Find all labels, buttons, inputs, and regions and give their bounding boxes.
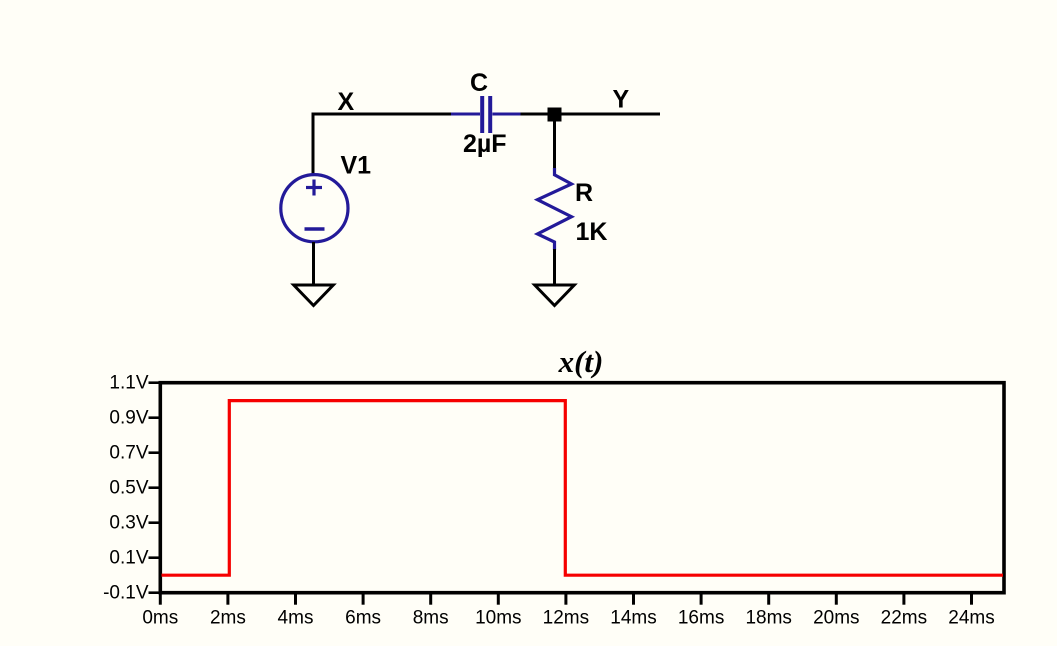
wire: X node horizontal (312, 113, 453, 116)
trace: x(t) square wave (162, 401, 1004, 576)
svg-text:R: R (575, 179, 593, 207)
svg-text:0.3V: 0.3V (109, 513, 148, 534)
y-axis labels (103, 373, 149, 604)
plot frame (160, 383, 1004, 593)
svg-text:1.1V: 1.1V (109, 373, 148, 394)
wire: node Y down to resistor (553, 120, 556, 169)
svg-text:X: X (338, 88, 355, 116)
y-axis ticks (149, 383, 160, 593)
ground (under R) (535, 285, 575, 306)
wire: V1 bottom to ground (312, 242, 315, 286)
voltage source V1 (281, 175, 348, 242)
wire: resistor to ground (553, 249, 556, 286)
svg-text:24ms: 24ms (948, 608, 994, 629)
svg-text:4ms: 4ms (278, 608, 314, 629)
svg-text:1K: 1K (576, 218, 608, 246)
svg-text:0.1V: 0.1V (109, 548, 148, 569)
wire: X node vertical drop to V1 (312, 113, 315, 175)
svg-text:14ms: 14ms (610, 608, 656, 629)
svg-text:16ms: 16ms (678, 608, 724, 629)
svg-text:0.5V: 0.5V (109, 478, 148, 499)
svg-text:V1: V1 (341, 152, 372, 180)
svg-text:22ms: 22ms (881, 608, 927, 629)
svg-text:x(t): x(t) (558, 344, 604, 379)
svg-text:C: C (470, 69, 488, 97)
capacitor C (451, 96, 521, 133)
wire: capacitor to node Y (521, 113, 549, 116)
svg-text:10ms: 10ms (475, 608, 521, 629)
svg-text:18ms: 18ms (745, 608, 791, 629)
x-axis labels (142, 608, 994, 629)
junction: node Y dot (548, 108, 562, 122)
resistor R (538, 168, 572, 250)
svg-text:2µF: 2µF (463, 130, 507, 158)
svg-text:6ms: 6ms (345, 608, 381, 629)
svg-text:0ms: 0ms (142, 608, 178, 629)
svg-text:20ms: 20ms (813, 608, 859, 629)
svg-text:-0.1V: -0.1V (103, 583, 149, 604)
wire: Y node horizontal (561, 113, 660, 116)
svg-text:0.9V: 0.9V (109, 408, 148, 429)
ground (under V1) (294, 285, 334, 306)
svg-text:Y: Y (613, 86, 630, 114)
svg-text:8ms: 8ms (413, 608, 449, 629)
svg-text:0.7V: 0.7V (109, 443, 148, 464)
svg-text:12ms: 12ms (543, 608, 589, 629)
svg-text:2ms: 2ms (210, 608, 246, 629)
x-axis ticks (160, 594, 971, 605)
